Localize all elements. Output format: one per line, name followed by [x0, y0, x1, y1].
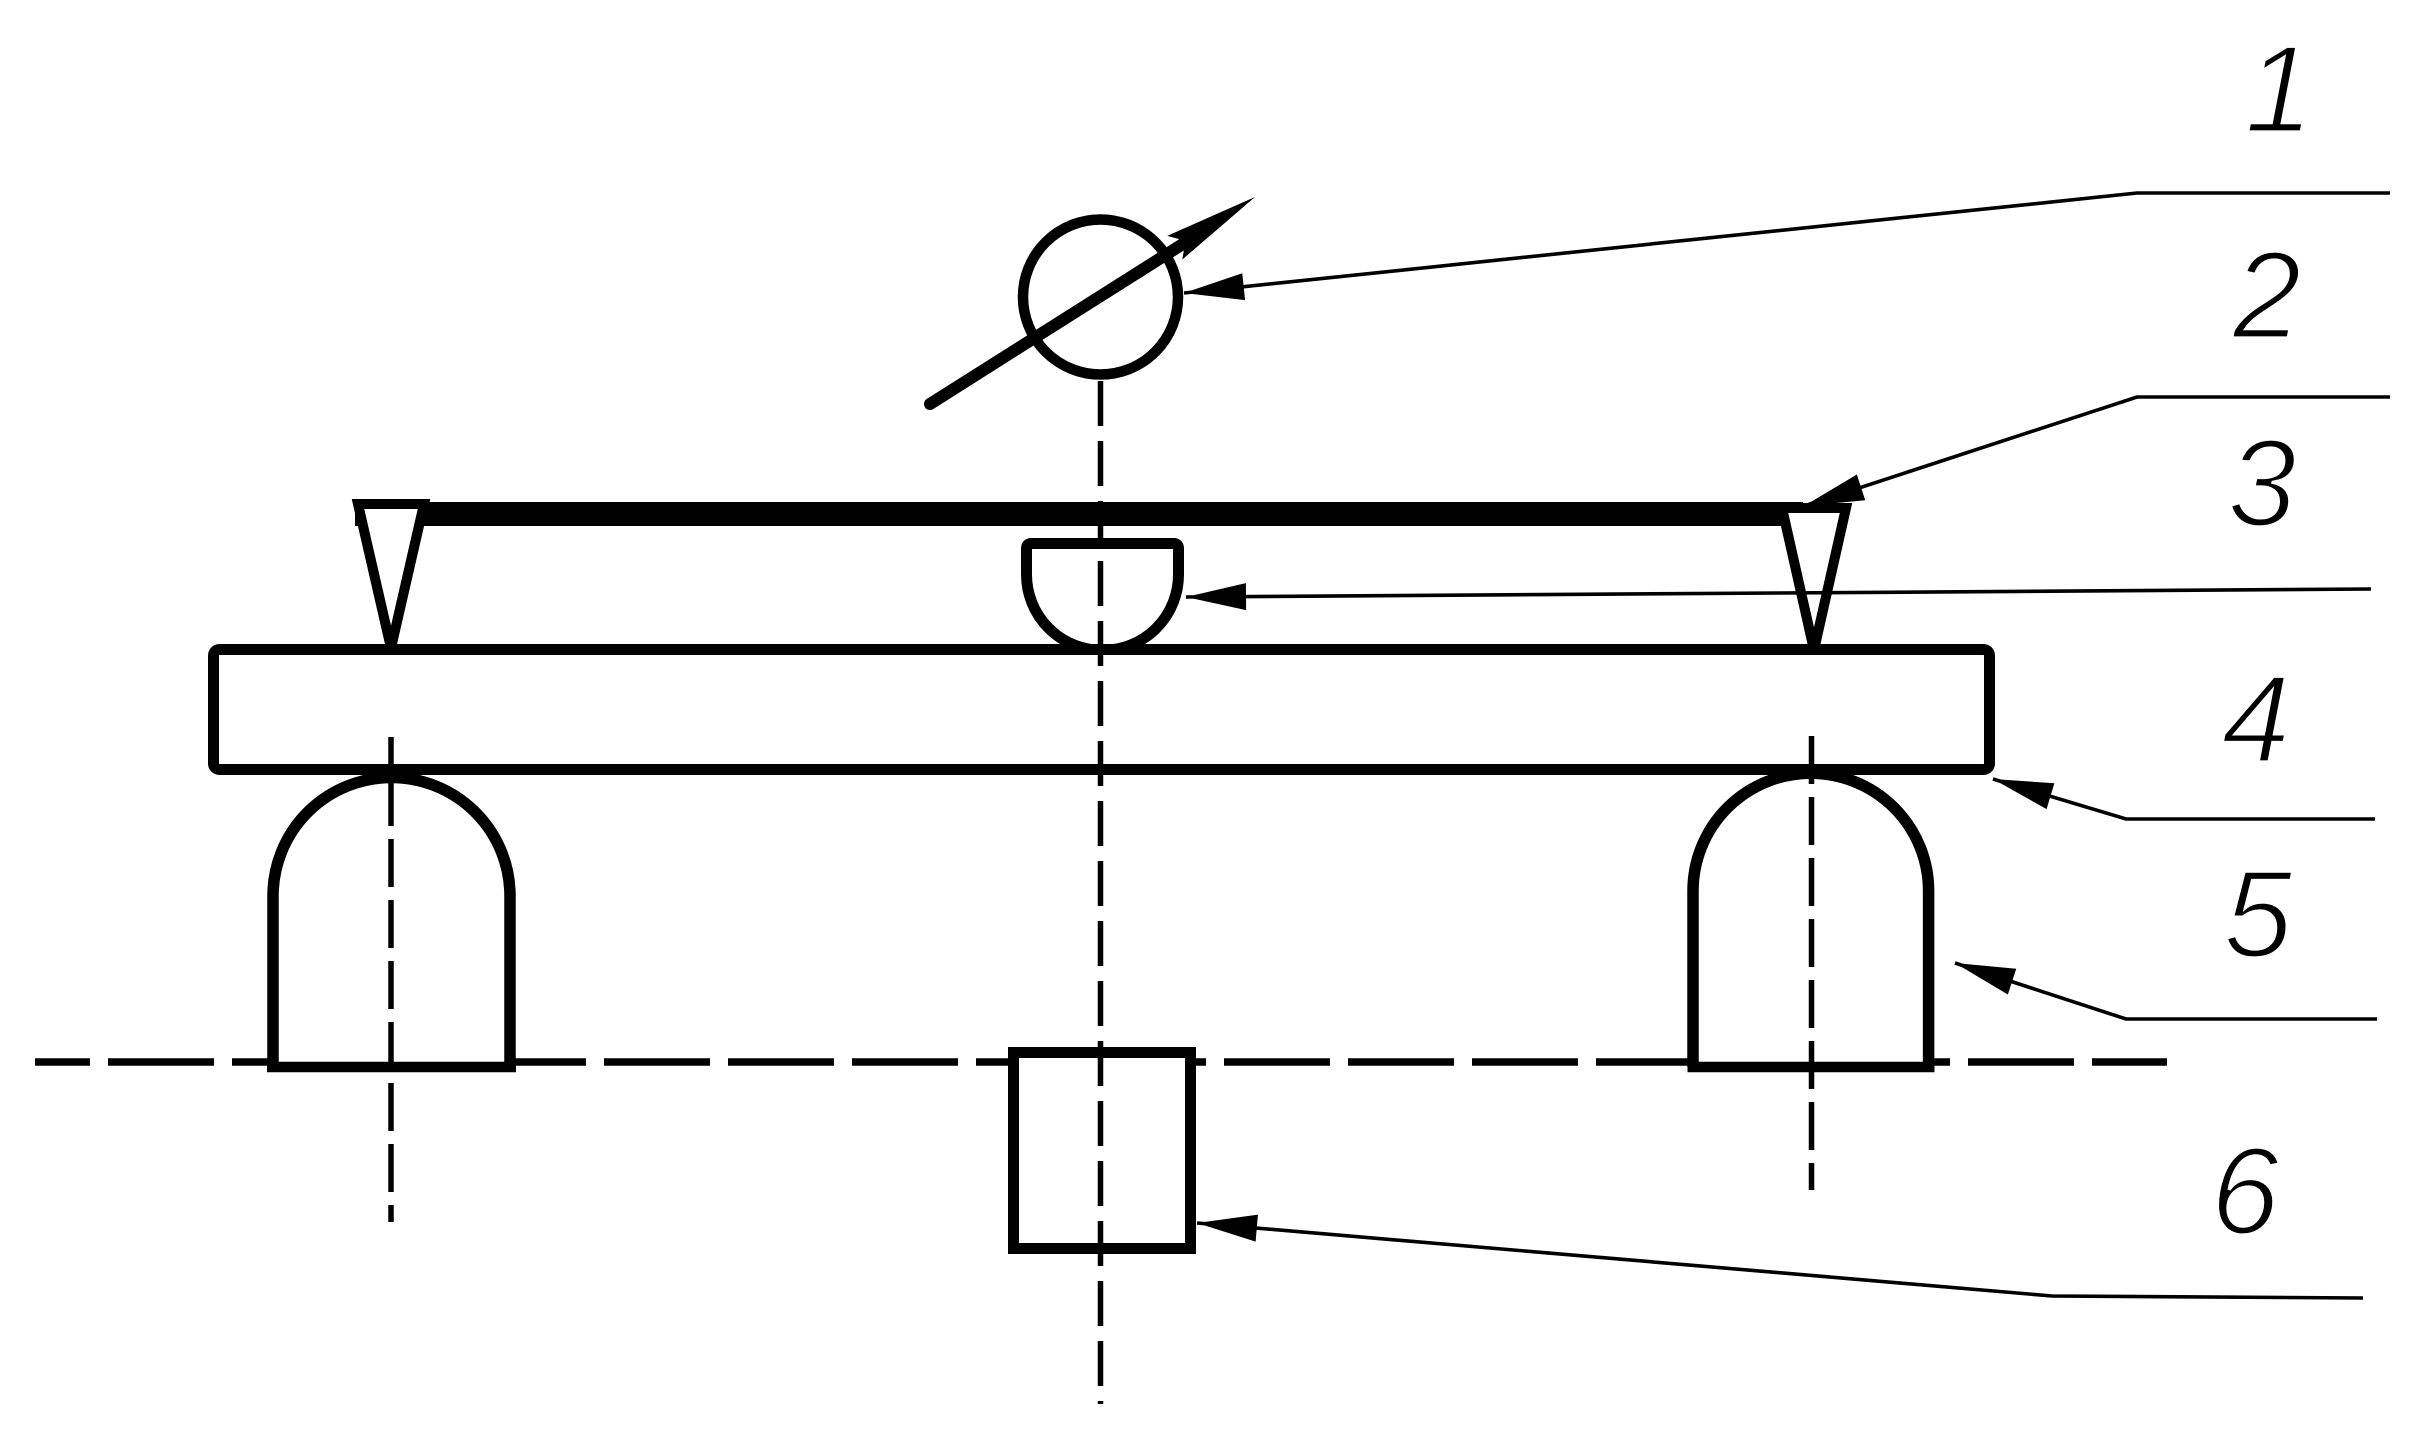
arrowhead 6	[1196, 1210, 1258, 1242]
indicator stem diagonal	[930, 230, 1205, 404]
leader line 6	[1197, 1223, 2363, 1298]
leader line 3	[1186, 589, 2371, 597]
svg-text:3: 3	[2228, 415, 2297, 553]
block 6	[1014, 1053, 1191, 1249]
left dome base line	[267, 1062, 516, 1073]
svg-text:5: 5	[2224, 846, 2294, 984]
plate 4	[214, 650, 1990, 770]
leader line 2	[1804, 397, 2390, 506]
left vertical centerline	[388, 737, 394, 1222]
svg-text:4: 4	[2222, 651, 2291, 789]
arrowhead 1	[1183, 273, 1245, 306]
leader line 1	[1184, 193, 2390, 293]
horizontal datum centerline	[35, 1058, 2167, 1066]
svg-text:2: 2	[2232, 227, 2302, 365]
left knife-edge triangle	[358, 504, 424, 648]
arrowhead 4	[1989, 766, 2054, 809]
arrowhead 5	[1951, 950, 2016, 994]
right dome support	[1693, 773, 1929, 1067]
beam 2	[355, 502, 1803, 526]
left dome support 5	[273, 777, 510, 1067]
center vertical centerline	[1098, 381, 1104, 1404]
dial indicator circle 1	[1023, 220, 1178, 375]
leader line 4	[1993, 779, 2375, 819]
half-dome gauge button 3	[1027, 544, 1179, 651]
svg-text:6: 6	[2211, 1123, 2280, 1261]
leader line 5	[1955, 963, 2377, 1019]
svg-text:1: 1	[2245, 21, 2314, 159]
arrowhead 2	[1800, 475, 1865, 519]
right vertical centerline	[1809, 736, 1815, 1190]
arrowhead 3	[1186, 583, 1246, 610]
right knife-edge triangle	[1782, 508, 1846, 650]
right dome base line	[1688, 1062, 1935, 1073]
stem arrowhead	[1167, 185, 1262, 259]
